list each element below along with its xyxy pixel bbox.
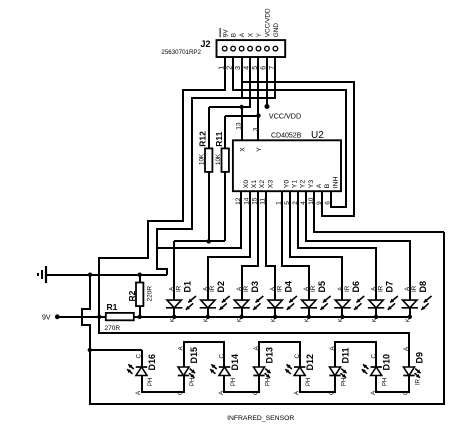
svg-text:PH: PH: [266, 378, 272, 386]
svg-text:D10: D10: [382, 354, 392, 371]
svg-text:J2: J2: [200, 39, 210, 49]
svg-text:IR: IR: [411, 285, 418, 292]
svg-text:D7: D7: [384, 281, 394, 293]
svg-text:INH: INH: [332, 176, 339, 188]
svg-text:VCC/VDD: VCC/VDD: [269, 111, 301, 120]
svg-text:9V: 9V: [222, 29, 229, 38]
svg-text:D12: D12: [305, 354, 315, 371]
svg-text:IR: IR: [176, 285, 183, 292]
svg-text:R1: R1: [107, 302, 118, 312]
svg-text:D11: D11: [341, 347, 351, 363]
svg-text:K: K: [405, 318, 411, 322]
svg-text:IR: IR: [276, 285, 283, 292]
svg-text:10K: 10K: [198, 153, 205, 165]
svg-text:IR: IR: [243, 285, 250, 292]
svg-text:VCC/VDD: VCC/VDD: [265, 8, 272, 37]
svg-text:D1: D1: [183, 281, 193, 293]
svg-text:270R: 270R: [105, 325, 121, 332]
svg-text:CD4052B: CD4052B: [271, 133, 302, 140]
svg-text:PH: PH: [342, 378, 348, 386]
svg-text:3: 3: [235, 66, 242, 70]
svg-text:D3: D3: [250, 281, 260, 293]
svg-text:D8: D8: [418, 281, 428, 293]
svg-text:IR: IR: [344, 285, 351, 292]
svg-text:Y0: Y0: [284, 180, 291, 189]
svg-text:IR: IR: [310, 285, 317, 292]
svg-text:D4: D4: [283, 281, 293, 293]
svg-text:2: 2: [227, 66, 234, 70]
svg-text:INFRARED_SENSOR: INFRARED_SENSOR: [227, 415, 294, 422]
svg-text:D2: D2: [216, 281, 226, 293]
svg-text:X1: X1: [251, 180, 258, 189]
svg-text:IR: IR: [415, 378, 421, 385]
svg-text:PH: PH: [231, 378, 237, 386]
svg-text:B: B: [231, 33, 238, 37]
svg-text:GND: GND: [273, 23, 280, 38]
svg-text:R12: R12: [197, 131, 207, 147]
svg-text:D15: D15: [189, 347, 199, 364]
svg-text:K: K: [170, 318, 176, 322]
svg-text:13: 13: [236, 122, 243, 130]
svg-text:PH: PH: [383, 378, 389, 386]
svg-text:U2: U2: [311, 130, 324, 141]
svg-text:PH: PH: [148, 378, 154, 386]
svg-text:Y2: Y2: [300, 180, 307, 189]
svg-text:PH: PH: [190, 378, 196, 386]
svg-text:6: 6: [261, 66, 268, 70]
svg-text:K: K: [204, 318, 210, 322]
svg-text:K: K: [271, 318, 277, 322]
svg-text:A: A: [316, 183, 323, 188]
svg-text:IR: IR: [209, 285, 216, 292]
svg-text:D6: D6: [351, 281, 361, 293]
svg-text:D5: D5: [317, 281, 327, 293]
svg-text:R11: R11: [214, 131, 224, 146]
svg-text:A: A: [239, 32, 246, 37]
svg-text:X: X: [239, 147, 246, 152]
svg-text:4: 4: [244, 66, 251, 70]
svg-text:5: 5: [252, 66, 259, 70]
svg-text:Y3: Y3: [308, 180, 315, 189]
svg-text:D16: D16: [147, 354, 157, 371]
svg-text:K: K: [372, 318, 378, 322]
svg-text:9: 9: [316, 201, 323, 205]
svg-text:7: 7: [269, 66, 276, 70]
svg-text:X2: X2: [259, 180, 266, 189]
svg-text:Y1: Y1: [292, 180, 299, 189]
svg-text:25630701RP2: 25630701RP2: [161, 49, 201, 56]
svg-text:X3: X3: [267, 180, 274, 189]
svg-text:10K: 10K: [215, 153, 222, 165]
svg-text:3: 3: [252, 127, 259, 131]
svg-text:B: B: [324, 183, 331, 188]
svg-text:PH: PH: [306, 378, 312, 386]
svg-text:R2: R2: [127, 290, 137, 301]
svg-text:Y: Y: [256, 32, 263, 37]
svg-text:K: K: [237, 318, 243, 322]
svg-text:D13: D13: [265, 347, 275, 364]
svg-text:D9: D9: [415, 352, 425, 364]
svg-text:X: X: [248, 32, 255, 37]
svg-text:Y: Y: [256, 147, 263, 152]
svg-text:220R: 220R: [147, 286, 154, 302]
svg-text:D14: D14: [230, 354, 240, 371]
svg-text:K: K: [338, 318, 344, 322]
svg-text:9V: 9V: [42, 315, 51, 322]
svg-text:6: 6: [325, 201, 332, 205]
svg-text:IR: IR: [377, 285, 384, 292]
svg-text:1: 1: [218, 66, 225, 70]
svg-text:K: K: [305, 318, 311, 322]
svg-text:X0: X0: [243, 180, 250, 189]
